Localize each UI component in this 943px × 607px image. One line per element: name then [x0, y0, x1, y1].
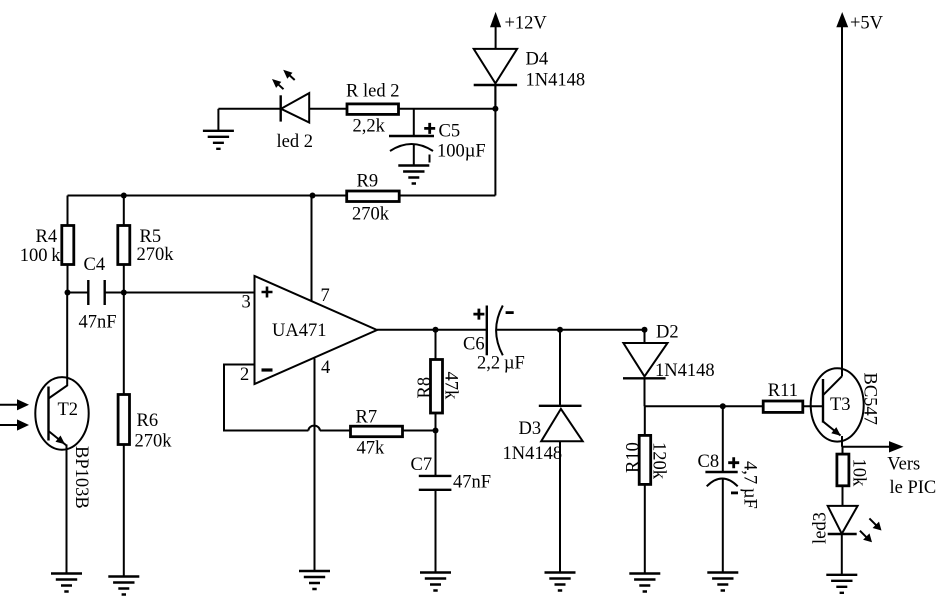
wire R8 branch — [435, 330, 437, 431]
svg-text:1N4148: 1N4148 — [526, 71, 586, 91]
svg-text:+12V: +12V — [505, 14, 548, 34]
svg-text:R7: R7 — [356, 408, 378, 428]
LED led3 — [811, 506, 858, 575]
svg-text:47k: 47k — [357, 438, 386, 458]
wire D2 node to T3 base rail — [645, 405, 824, 407]
capacitor C7 — [411, 431, 492, 573]
resistor R11 — [763, 381, 803, 413]
svg-text:270k: 270k — [352, 205, 390, 225]
resistor R9 — [347, 172, 400, 225]
wire T2 emitter to ground — [66, 445, 68, 574]
wire pin4 to ground — [314, 359, 316, 572]
svg-text:C7: C7 — [411, 455, 433, 475]
svg-text:R6: R6 — [137, 411, 159, 431]
wire pin7 to rail — [311, 196, 313, 302]
svg-text:R8: R8 — [415, 377, 435, 399]
svg-text:47k: 47k — [441, 372, 461, 401]
svg-text:C8: C8 — [698, 452, 720, 472]
capacitor C6 — [463, 306, 525, 374]
svg-text:led3: led3 — [811, 512, 831, 544]
resistor R6 — [118, 395, 172, 452]
svg-text:2,2 µF: 2,2 µF — [477, 354, 525, 374]
svg-text:D2: D2 — [656, 323, 679, 343]
svg-text:1N4148: 1N4148 — [503, 444, 563, 464]
light arrow into T2 lower — [0, 419, 29, 430]
svg-text:led 2: led 2 — [277, 132, 313, 152]
svg-text:3: 3 — [242, 293, 251, 313]
svg-text:10k: 10k — [849, 459, 869, 488]
node D2 junction — [642, 327, 648, 333]
power +12V — [490, 12, 547, 49]
svg-text:100µF: 100µF — [437, 142, 486, 162]
svg-text:7: 7 — [321, 286, 330, 306]
ground C8 — [707, 573, 738, 591]
svg-text:Vers: Vers — [887, 455, 920, 475]
wire ground to led2 — [218, 108, 280, 110]
capacitor C5 — [389, 109, 486, 166]
op-amp U1 UA471 — [240, 276, 377, 385]
svg-text:C5: C5 — [439, 122, 461, 142]
ground D3 — [545, 573, 576, 591]
svg-text:120k: 120k — [649, 442, 669, 480]
svg-text:UA471: UA471 — [272, 321, 326, 341]
svg-text:270k: 270k — [135, 432, 173, 452]
node R5/C4 junction — [121, 290, 127, 296]
svg-text:1N4148: 1N4148 — [655, 361, 715, 381]
wire C6 to D2 node — [496, 329, 644, 331]
light arrow out of led2 lower — [272, 79, 284, 89]
light arrow out of led2 upper — [283, 70, 295, 80]
node C8 junction — [720, 403, 726, 409]
capacitor C4 — [79, 255, 117, 333]
svg-text:47nF: 47nF — [79, 313, 117, 333]
wire R5 branch vertical — [123, 196, 125, 293]
svg-text:BC547: BC547 — [860, 373, 880, 425]
svg-text:C6: C6 — [463, 335, 485, 355]
wire input node to C4 — [68, 292, 89, 294]
transistor T3 — [811, 368, 880, 447]
svg-text:+5V: +5V — [850, 14, 884, 34]
node D3 junction — [557, 327, 563, 333]
wire 10k branch — [842, 447, 844, 506]
svg-text:C4: C4 — [84, 255, 106, 275]
svg-text:R4: R4 — [36, 227, 58, 247]
resistor 10k — [837, 454, 869, 487]
capacitor C8 — [698, 406, 760, 572]
node rail-R5 junction — [121, 193, 127, 199]
svg-text:R led 2: R led 2 — [346, 82, 399, 102]
power +5V — [836, 12, 883, 376]
svg-text:T3: T3 — [830, 395, 851, 415]
wire R7 to R8/C7 junction — [402, 430, 436, 432]
node rail-pin7 junction — [310, 193, 316, 199]
ground led3 — [826, 575, 857, 593]
svg-text:2: 2 — [240, 365, 249, 385]
transistor T2 — [35, 293, 91, 509]
svg-text:T2: T2 — [58, 400, 79, 420]
svg-text:4,7 µF: 4,7 µF — [740, 461, 760, 509]
resistor R7 — [351, 408, 403, 459]
wire led2 anode to ground stub — [217, 109, 219, 131]
wire crossover hop — [308, 426, 320, 431]
wire rail riser to D4 junction — [494, 85, 496, 196]
node R7/R8/C7 junction — [433, 428, 439, 434]
ground C7 — [420, 573, 451, 591]
resistor R led 2 — [346, 82, 399, 137]
ground T2 — [51, 574, 82, 592]
svg-text:D3: D3 — [519, 419, 542, 439]
svg-text:100 k: 100 k — [20, 246, 61, 266]
wire R10 branch — [644, 406, 646, 573]
ground op-amp pin4 — [299, 571, 330, 589]
node R4/C4 junction — [65, 290, 71, 296]
resistor R4 — [20, 226, 74, 267]
diode D2 — [623, 323, 715, 407]
svg-text:R5: R5 — [140, 227, 162, 247]
wire R led 2 to D4 node — [399, 108, 496, 110]
wire R4 branch vertical — [67, 196, 69, 293]
ground R6 — [108, 577, 139, 595]
resistor R10 — [624, 435, 669, 484]
node output/R8 junction — [433, 327, 439, 333]
svg-text:47nF: 47nF — [453, 473, 491, 493]
wire op-amp output — [377, 329, 487, 331]
ground C5 — [398, 166, 429, 184]
svg-text:R10: R10 — [624, 442, 644, 473]
node D4/C5/Rled2 junction — [492, 106, 498, 112]
wire led2 to R led 2 — [309, 108, 347, 110]
svg-text:2,2k: 2,2k — [353, 117, 386, 137]
svg-text:le PIC: le PIC — [890, 478, 937, 498]
svg-text:BP103B: BP103B — [71, 446, 91, 509]
resistor R8 — [415, 360, 461, 414]
wire C4 to op-amp pin3 — [105, 292, 255, 294]
light arrow out of led3 upper — [869, 518, 881, 530]
wire top rail y=195.5 — [68, 195, 496, 197]
svg-text:R9: R9 — [357, 172, 379, 192]
ground led2 — [203, 131, 234, 149]
ground R10 — [629, 574, 660, 592]
svg-text:R11: R11 — [768, 381, 798, 401]
svg-text:270k: 270k — [137, 245, 175, 265]
diode D3 — [503, 330, 583, 573]
diode D4 — [474, 49, 585, 109]
light arrow out of led3 lower — [860, 531, 872, 543]
wire feedback pin2 loop — [224, 365, 308, 431]
wire emitter to Vers le PIC — [842, 441, 936, 498]
svg-text:D4: D4 — [526, 50, 549, 70]
resistor R5 — [118, 226, 174, 266]
LED led2 — [277, 93, 313, 152]
light arrow into T2 upper — [0, 399, 29, 410]
wire R6 to ground — [123, 293, 125, 577]
wire hop to R7 — [320, 430, 351, 432]
svg-text:4: 4 — [321, 358, 330, 378]
